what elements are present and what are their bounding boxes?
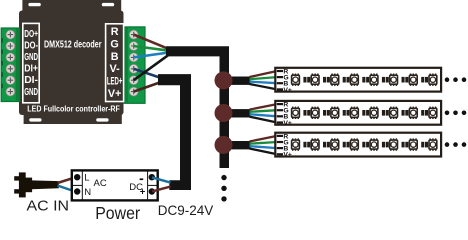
svg-text:Power: Power	[95, 203, 140, 222]
svg-text:V-: V-	[109, 63, 120, 75]
svg-text:R: R	[111, 26, 119, 38]
svg-text:DI-: DI-	[24, 75, 38, 86]
svg-text:LED Fullcolor controller-RF: LED Fullcolor controller-RF	[27, 104, 120, 113]
svg-text:DO-: DO-	[24, 40, 38, 51]
svg-text:DI+: DI+	[24, 64, 38, 75]
svg-text:+: +	[140, 187, 146, 198]
svg-text:V+: V+	[108, 88, 122, 100]
svg-text:AC IN: AC IN	[27, 198, 70, 214]
svg-text:L: L	[84, 173, 89, 184]
svg-text:DO+: DO+	[24, 29, 38, 40]
svg-text:AC: AC	[94, 178, 107, 189]
svg-text:GND: GND	[24, 87, 38, 98]
svg-text:DMX512 decoder: DMX512 decoder	[44, 39, 102, 50]
svg-text:DC9-24V: DC9-24V	[158, 202, 214, 218]
svg-text:GND: GND	[24, 52, 38, 63]
svg-text:B: B	[111, 51, 119, 63]
svg-text:G: G	[110, 39, 118, 51]
svg-text:N: N	[84, 187, 91, 198]
svg-text:LED+: LED+	[107, 76, 123, 88]
